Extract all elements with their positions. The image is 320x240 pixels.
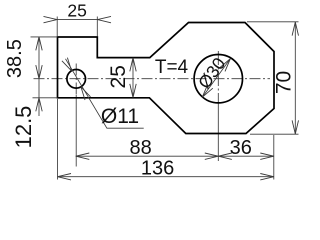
arrow dim88 left — [76, 153, 90, 159]
dimension lines — [39, 20, 295, 177]
arrow dim12.5 bottom — [36, 98, 42, 112]
svg-text:88: 88 — [129, 137, 151, 159]
arrow dim25neck bottom — [130, 84, 136, 98]
arrowheads — [36, 16, 299, 180]
svg-text:T=4: T=4 — [155, 57, 189, 78]
arrow shared centerline down — [36, 65, 42, 79]
dimline 136 — [58, 176, 274, 178]
arrow D11 lower — [81, 87, 91, 100]
ext 70 bottom — [250, 133, 299, 135]
svg-text:25: 25 — [107, 65, 130, 88]
ext top25 right — [96, 17, 98, 37]
centerline horizontal through both holes — [34, 78, 271, 80]
svg-text:25: 25 — [67, 0, 86, 20]
ext left edge down — [57, 99, 59, 180]
svg-text:Ø11: Ø11 — [101, 105, 139, 128]
dimline 88 and 36 — [76, 155, 274, 157]
arrow dim25neck top — [130, 58, 136, 72]
dimline 25 top — [57, 19, 98, 21]
arrow dim70 bottom — [292, 120, 298, 133]
dimline 70 — [294, 22, 296, 134]
arrow dim70 top — [292, 22, 298, 35]
dimension texts — [4, 0, 296, 179]
centerline vertical small hole — [75, 64, 77, 167]
diameter line D30 — [202, 59, 230, 98]
ext 38.5 top — [31, 36, 58, 38]
arrow dim136 right — [260, 174, 274, 180]
arrow dim36 right — [260, 153, 274, 159]
leader D11 — [66, 59, 144, 128]
svg-text:136: 136 — [141, 158, 174, 180]
dimline 38.5 and 12.5 — [38, 37, 40, 116]
arrow D11 upper — [62, 58, 72, 71]
arrow dim88 right — [205, 153, 219, 159]
arrow dim36 left — [218, 153, 232, 159]
extension lines — [31, 17, 299, 180]
ext top25 left — [56, 17, 58, 37]
svg-text:12.5: 12.5 — [11, 106, 36, 149]
centerline vertical big hole — [217, 51, 219, 161]
arrow dim38.5 top — [36, 37, 42, 51]
svg-text:36: 36 — [230, 137, 252, 159]
hole D30 — [194, 54, 242, 102]
ext 12.5 bottom (tab bottom extended left) — [33, 97, 58, 99]
ext right edge down — [273, 135, 275, 180]
svg-text:70: 70 — [273, 71, 296, 94]
svg-text:38.5: 38.5 — [4, 39, 26, 78]
arrow D30 upper — [220, 59, 231, 72]
ext 70 top — [247, 21, 299, 23]
arrow dim136 left — [58, 174, 72, 180]
arrow dim25top left — [44, 16, 58, 22]
arrow dim25top right — [98, 16, 112, 22]
part outline — [58, 23, 275, 134]
dimline 25 neck — [132, 58, 134, 98]
hole D11 — [67, 70, 86, 89]
arrow D30 lower — [202, 84, 213, 97]
